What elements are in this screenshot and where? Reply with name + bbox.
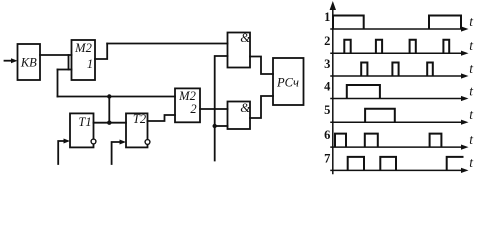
- waveform 3 pulse a: [361, 63, 367, 77]
- arrowhead row 4: [461, 96, 469, 101]
- junction dot bus/drop: [107, 94, 111, 98]
- svg-text:РСч: РСч: [276, 76, 299, 90]
- wire T1 output to T2 input: [94, 122, 127, 124]
- block M2-1: [72, 40, 96, 80]
- input arrow to KV: [5, 60, 13, 62]
- svg-text:4: 4: [324, 80, 331, 94]
- axis row 6: [331, 146, 462, 148]
- wire KV to M2-1 upper input: [40, 54, 72, 56]
- wire M2-2 output to AND2 input 1: [200, 108, 228, 110]
- inverter bubble T2: [145, 140, 150, 145]
- wire T1 clock input: [58, 141, 65, 164]
- waveform 6 pulse a: [335, 134, 346, 148]
- arrowhead row 7: [461, 168, 469, 173]
- svg-text:М2: М2: [178, 89, 196, 103]
- waveform 7 pulse b: [380, 157, 396, 171]
- svg-text:Т1: Т1: [78, 115, 91, 129]
- wire M2-1 lower input: [58, 69, 72, 71]
- block RSch (РСч): [273, 58, 304, 105]
- svg-text:6: 6: [324, 128, 330, 142]
- wire bus drop to T1-T2 wire: [108, 97, 110, 123]
- waveform 7 pulse a: [348, 157, 364, 171]
- arrowhead T2 clock: [120, 140, 127, 145]
- axis row 7: [331, 169, 462, 171]
- axis row 1: [331, 28, 462, 30]
- svg-text:1: 1: [324, 10, 330, 24]
- op AND1 (top & gate): [228, 33, 251, 68]
- arrowhead row 1: [461, 26, 469, 31]
- time axis vertical: [332, 8, 334, 174]
- wire M2-1 output step: [95, 44, 107, 60]
- svg-text:7: 7: [324, 151, 330, 165]
- waveform 6 pulse c: [430, 134, 442, 148]
- waveform 7 pulse c: [447, 157, 464, 171]
- waveform 2 pulse a: [344, 40, 350, 54]
- svg-text:2: 2: [190, 102, 196, 116]
- arrowhead row 5: [461, 120, 469, 125]
- junction dot AND2 input: [213, 124, 217, 128]
- axis row 2: [331, 52, 462, 54]
- waveform 6 pulse b: [365, 134, 378, 148]
- waveform 3 pulse b: [392, 63, 398, 77]
- svg-text:2: 2: [324, 34, 330, 48]
- wire AND2 output to RSch input 2: [250, 96, 273, 118]
- block T2: [126, 113, 148, 147]
- axis row 5: [331, 121, 462, 123]
- svg-text:КВ: КВ: [20, 56, 37, 70]
- wire T2 output step to M2-2 input 2: [148, 115, 176, 121]
- arrowhead KV input: [11, 58, 18, 63]
- svg-text:М2: М2: [74, 41, 92, 55]
- wire AND1 output to RSch input 1: [250, 57, 273, 75]
- wire branch vertical node: [68, 55, 70, 70]
- wire T2 clock input: [112, 142, 122, 164]
- waveform 2 pulse c: [410, 40, 416, 54]
- svg-text:&: &: [240, 30, 251, 45]
- waveform 3 pulse c: [427, 63, 433, 77]
- waveform 1 pulse b: [429, 16, 461, 30]
- arrowhead row 2: [461, 51, 469, 56]
- wire M2-1 output to AND1 input 1: [107, 43, 227, 45]
- wire common vertical to AND gates: [215, 56, 228, 161]
- svg-text:1: 1: [87, 57, 93, 71]
- block M2-2: [175, 88, 200, 122]
- arrowhead vertical axis: [330, 1, 336, 10]
- waveform 1 pulse a: [333, 16, 364, 30]
- axis row 3: [331, 75, 462, 77]
- axis row 4: [331, 98, 462, 100]
- timing diagram: [331, 8, 462, 174]
- block T1: [70, 113, 94, 147]
- waveform 5 pulse: [365, 109, 395, 123]
- op AND2 (bottom & gate): [228, 102, 251, 130]
- waveform 2 pulse b: [376, 40, 382, 54]
- waveform 2 pulse d: [443, 40, 449, 54]
- inverter bubble T1: [91, 139, 96, 144]
- wire junction to AND2 input 2: [215, 125, 228, 127]
- arrowhead T1 clock: [64, 139, 71, 144]
- wire vertical feedback drop: [57, 70, 59, 97]
- block KV (КВ): [18, 44, 41, 80]
- svg-text:3: 3: [324, 57, 330, 71]
- arrowhead row 6: [461, 145, 469, 150]
- waveform 4 pulse: [347, 85, 380, 99]
- svg-text:Т2: Т2: [133, 112, 146, 126]
- svg-text:5: 5: [324, 103, 330, 117]
- arrowhead row 3: [461, 73, 469, 78]
- wire feedback bus to M2-2 input 1: [58, 96, 176, 98]
- svg-text:&: &: [240, 100, 251, 115]
- junction dot drop/T1T2: [107, 121, 111, 125]
